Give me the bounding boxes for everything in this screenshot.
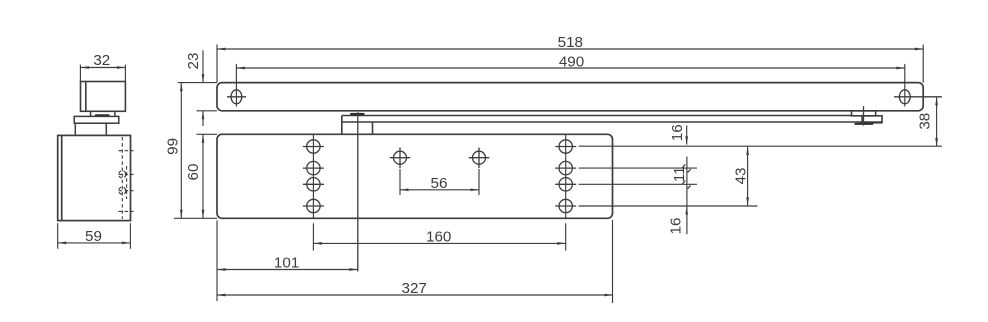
right column holes [555,140,576,213]
dimension 16 bottom [685,206,688,215]
svg-text:32: 32 [93,52,110,69]
dimension 518 [217,45,923,83]
svg-text:56: 56 [431,175,448,192]
svg-text:490: 490 [559,53,584,70]
middle hole left [390,148,411,169]
rail hole right [894,90,942,104]
arm pivot bracket [342,116,373,135]
left column holes [303,140,324,213]
svg-text:16: 16 [669,124,686,141]
closer body [217,134,613,218]
svg-text:43: 43 [733,168,750,185]
dimension 160 [313,242,565,244]
side view pinion tab (dark) [95,114,110,116]
left hole column centre line [312,134,314,218]
right hole column centre line [565,134,567,218]
svg-text:16: 16 [668,218,685,235]
dimension 43 [747,147,749,206]
dimension 38 [936,97,938,147]
svg-text:327: 327 [402,280,427,297]
svg-text:99: 99 [164,138,181,155]
arm clamp upper plate [852,111,876,116]
side view block [75,123,106,135]
hole row extension lines [579,146,942,206]
arm clamp centre line [863,106,865,125]
dimension 16 top [686,125,688,144]
svg-text:59: 59 [85,228,102,245]
rail hole left [227,90,246,104]
dimension 11 [686,157,688,235]
arm pivot tab (dark) [350,113,364,116]
dimension 60 [197,134,218,218]
dimension 101 [217,220,358,301]
side view neck [91,111,115,116]
svg-text:101: 101 [274,255,299,272]
slide rail [217,83,923,111]
dimension 327 [217,220,613,303]
dimension 99 [174,83,217,219]
svg-text:60: 60 [185,164,202,181]
side view hidden valve lines (dashed) [119,137,134,219]
dimension 59 [58,223,131,249]
dimension 32 [80,65,125,81]
arm clamp lower plate [862,116,882,123]
side view plate [74,116,119,123]
svg-text:23: 23 [185,53,202,70]
dimension 56 [400,169,479,195]
arm pivot centre line [357,112,359,271]
middle hole right [469,148,490,169]
arm top line [342,115,852,117]
svg-text:38: 38 [917,113,934,130]
svg-text:11: 11 [671,166,688,182]
dimension 490 [236,64,904,107]
arm clamp tab (dark) [854,123,873,125]
side view body [58,135,131,220]
svg-text:160: 160 [426,229,451,246]
dimension 23 [178,50,217,126]
svg-text:518: 518 [558,34,583,51]
arm bottom line [342,121,882,123]
side view cap [81,82,126,112]
